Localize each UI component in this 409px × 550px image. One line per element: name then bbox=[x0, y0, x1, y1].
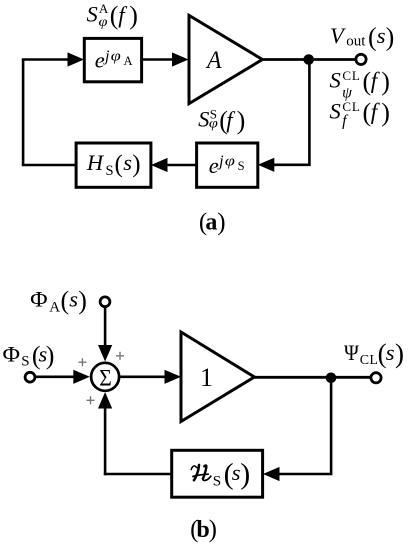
svg-text:A: A bbox=[124, 54, 133, 68]
svg-text:1: 1 bbox=[200, 363, 213, 392]
terminal: output open circle (a) bbox=[356, 54, 366, 64]
svg-text:): ) bbox=[132, 151, 140, 178]
svg-text:j: j bbox=[217, 153, 224, 170]
wire: amplifier output to terminal (a) bbox=[262, 58, 356, 61]
arrowhead into H_S box bbox=[151, 158, 168, 172]
svg-text:S: S bbox=[330, 67, 341, 92]
arrowhead into script-H box bbox=[263, 467, 280, 481]
label S_psi^CL(f) bbox=[330, 67, 390, 102]
plus sign below summer bbox=[87, 396, 95, 404]
arrowhead into amplifier 1 bbox=[165, 370, 182, 384]
arrowhead into summer top bbox=[98, 345, 112, 362]
label Phi_A(s) bbox=[30, 286, 87, 315]
svg-text:S: S bbox=[21, 354, 29, 370]
svg-text:f: f bbox=[371, 68, 381, 93]
svg-text:φ: φ bbox=[225, 154, 235, 170]
svg-text:out: out bbox=[346, 33, 366, 49]
svg-text:a: a bbox=[205, 210, 217, 236]
arrowhead into e^jphiS box bbox=[258, 158, 275, 172]
svg-text:A: A bbox=[99, 1, 109, 16]
wire: node down to feedback row (a) bbox=[308, 60, 311, 165]
plus sign right of summer top bbox=[116, 352, 124, 360]
svg-text:): ) bbox=[386, 23, 395, 52]
arrowhead into summer bottom bbox=[98, 392, 112, 409]
wire: node down to feedback row (b) bbox=[330, 378, 333, 474]
summer circle bbox=[91, 363, 119, 391]
svg-text:): ) bbox=[381, 98, 390, 127]
svg-text:Φ: Φ bbox=[30, 287, 47, 312]
svg-text:V: V bbox=[330, 23, 346, 48]
wire: summer to amplifier 1 bbox=[119, 375, 168, 378]
svg-text:e: e bbox=[95, 48, 105, 73]
wire: H_S box to left vertical (a) bbox=[22, 164, 76, 167]
svg-text:S: S bbox=[87, 1, 98, 26]
wire: feedback into script-H box (b) bbox=[277, 473, 332, 476]
svg-text:s: s bbox=[69, 287, 78, 312]
svg-text:S: S bbox=[106, 163, 114, 179]
svg-text:S: S bbox=[198, 107, 209, 132]
label e^jphiA bbox=[95, 48, 133, 73]
svg-text:): ) bbox=[129, 1, 138, 30]
wire: top horizontal into e^jphiA box (a) bbox=[22, 58, 70, 61]
svg-text:φ: φ bbox=[99, 15, 108, 30]
terminal: Phi_S input open circle bbox=[25, 372, 35, 382]
svg-text:CL: CL bbox=[360, 353, 379, 368]
svg-text:Σ: Σ bbox=[99, 365, 112, 390]
svg-text:f: f bbox=[371, 99, 381, 124]
plus sign left of summer bbox=[78, 358, 86, 366]
svg-text:): ) bbox=[217, 209, 225, 236]
caption (b) bbox=[190, 516, 217, 543]
wire: e^jphiS to H_S box (a) bbox=[166, 164, 197, 167]
svg-text:S: S bbox=[213, 472, 221, 489]
label e^jphiS bbox=[209, 153, 245, 178]
svg-text:): ) bbox=[209, 516, 217, 543]
svg-text:f: f bbox=[118, 2, 128, 27]
svg-text:Φ: Φ bbox=[3, 341, 21, 366]
wire: e^jphiA box to amplifier A (a) bbox=[142, 58, 175, 61]
caption (a) bbox=[199, 209, 226, 236]
svg-text:): ) bbox=[395, 338, 404, 368]
svg-text:A: A bbox=[49, 299, 60, 315]
label S_f^CL(f) bbox=[330, 98, 390, 129]
svg-text:S: S bbox=[330, 99, 341, 124]
label V_out(s) bbox=[330, 23, 394, 52]
wire: Phi_A down to summer bbox=[104, 307, 107, 348]
svg-text:(: ( bbox=[115, 151, 123, 178]
svg-text:(: ( bbox=[61, 286, 70, 315]
wire: Phi_S to summer bbox=[35, 375, 76, 378]
wire: script-H box to left (b) bbox=[104, 473, 172, 476]
svg-text:Ψ: Ψ bbox=[344, 340, 359, 365]
amplifier A triangle (a) bbox=[189, 15, 262, 103]
svg-text:): ) bbox=[46, 341, 55, 370]
svg-text:f: f bbox=[342, 112, 349, 129]
label Phi_S(s) bbox=[3, 341, 55, 370]
svg-text:): ) bbox=[240, 457, 250, 490]
svg-text:s: s bbox=[123, 150, 132, 175]
block e^jphiA box bbox=[84, 38, 141, 81]
wire: left feedback vertical (a) bbox=[22, 60, 25, 166]
svg-text:(: ( bbox=[368, 23, 377, 52]
block script H_S(s) box (b) bbox=[172, 450, 263, 497]
svg-text:f: f bbox=[226, 108, 236, 133]
svg-text:s: s bbox=[386, 340, 395, 365]
svg-text:j: j bbox=[103, 48, 110, 65]
svg-text:): ) bbox=[381, 67, 390, 96]
node: output junction dot (b) bbox=[326, 373, 337, 384]
arrowhead into summer left bbox=[73, 370, 90, 384]
svg-text:s: s bbox=[377, 23, 386, 48]
wire: amplifier 1 output to terminal (b) bbox=[254, 376, 371, 379]
svg-text:H: H bbox=[86, 150, 105, 175]
block e^jphiS box bbox=[197, 143, 258, 187]
terminal: output open circle (b) bbox=[371, 373, 381, 383]
svg-text:φ: φ bbox=[111, 49, 121, 65]
svg-text:A: A bbox=[205, 47, 222, 74]
svg-text:φ: φ bbox=[209, 117, 218, 132]
svg-text:): ) bbox=[237, 106, 246, 135]
wire: feedback into e^jphiS box (a) bbox=[272, 164, 311, 167]
node: output junction dot (a) bbox=[303, 54, 314, 65]
arrowhead into amplifier A bbox=[172, 52, 189, 66]
arrowhead into e^jphiA box bbox=[68, 52, 85, 66]
svg-text:): ) bbox=[78, 286, 87, 315]
label S_phi^A(f) above box bbox=[87, 1, 138, 30]
amplifier 1 triangle (b) bbox=[181, 332, 254, 422]
label S_phi^S(f) above box bbox=[198, 106, 245, 135]
block H_S(s) box (a) bbox=[76, 143, 151, 187]
svg-text:S: S bbox=[238, 159, 245, 173]
svg-text:CL: CL bbox=[342, 68, 360, 83]
svg-text:(: ( bbox=[110, 1, 119, 30]
svg-text:e: e bbox=[209, 153, 219, 178]
label Psi_CL(s) bbox=[344, 338, 404, 368]
wire: up into summer bottom bbox=[104, 407, 107, 475]
terminal: Phi_A input open circle bbox=[100, 297, 110, 307]
label script H_S(s) bbox=[191, 457, 250, 490]
label H_S(s) bbox=[86, 150, 141, 179]
